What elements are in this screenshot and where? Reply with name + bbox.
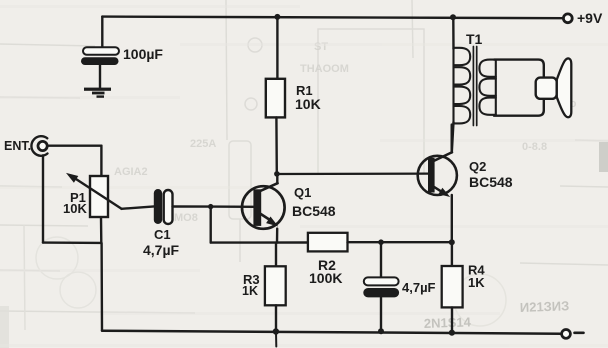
- svg-text:1K: 1K: [468, 275, 485, 290]
- svg-text:0-8.8: 0-8.8: [522, 141, 547, 153]
- svg-text:ST: ST: [314, 41, 328, 53]
- svg-text:C1: C1: [154, 227, 171, 242]
- svg-text:MO8: MO8: [174, 212, 198, 224]
- svg-text:И21ЗИЗ: И21ЗИЗ: [520, 298, 570, 315]
- svg-text:100K: 100K: [309, 270, 342, 286]
- svg-text:AGIA2: AGIA2: [114, 166, 148, 178]
- svg-text:+9V: +9V: [577, 10, 603, 26]
- svg-text:BC548: BC548: [469, 174, 513, 190]
- svg-text:225A: 225A: [190, 138, 216, 150]
- svg-text:THAOOM: THAOOM: [300, 63, 349, 75]
- svg-text:BC548: BC548: [292, 203, 336, 219]
- svg-text:4,7µF: 4,7µF: [402, 280, 436, 295]
- svg-text:Q1: Q1: [294, 185, 311, 200]
- svg-text:4,7µF: 4,7µF: [143, 242, 180, 258]
- svg-text:100µF: 100µF: [123, 46, 163, 62]
- svg-text:10K: 10K: [295, 96, 321, 112]
- svg-text:1K: 1K: [242, 284, 258, 298]
- svg-text:Q2: Q2: [469, 159, 486, 174]
- svg-text:10K: 10K: [63, 201, 87, 216]
- svg-text:ENT.: ENT.: [4, 139, 31, 153]
- svg-text:2N1S14: 2N1S14: [424, 314, 472, 331]
- svg-text:T1: T1: [466, 31, 483, 47]
